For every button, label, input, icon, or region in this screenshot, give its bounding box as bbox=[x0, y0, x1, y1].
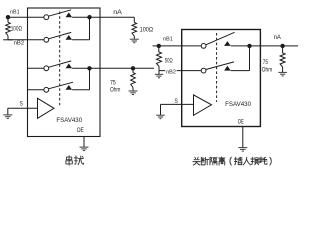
svg-text:S: S bbox=[175, 99, 178, 105]
resistor 50 Ohm at nB1 bbox=[158, 46, 160, 52]
switch S5 lever bbox=[206, 32, 235, 45]
wire nB2 stub to switch 6 bbox=[182, 70, 202, 72]
wire nA stub right bbox=[283, 45, 298, 47]
switch S4 throw contact bbox=[66, 85, 73, 90]
svg-text:FSAV430: FSAV430 bbox=[225, 101, 251, 108]
svg-text:OE: OE bbox=[238, 119, 244, 126]
wire row2 up to row1 junction (right) bbox=[249, 46, 251, 71]
wire nB1 to switch 1 bbox=[8, 16, 44, 18]
resistor 75 Ohm bbox=[132, 68, 134, 72]
svg-text:100Ω: 100Ω bbox=[140, 28, 154, 34]
svg-text:nB1: nB1 bbox=[10, 9, 20, 15]
switch S4 pole bbox=[44, 87, 49, 92]
svg-text:75: 75 bbox=[263, 60, 269, 66]
junction row1/row2 (right) bbox=[247, 44, 251, 48]
wire row4 up to row3 junction bbox=[89, 68, 91, 90]
switch S3 lever bbox=[49, 61, 72, 67]
switch S1 throw contact bbox=[66, 12, 73, 17]
switch S5 throw contact bbox=[224, 41, 231, 46]
svg-text:FSAV430: FSAV430 bbox=[56, 117, 82, 124]
ground below OE bbox=[80, 146, 89, 148]
wire row2 up to row1 junction bbox=[89, 17, 91, 40]
buffer/driver U2 bbox=[194, 95, 212, 115]
node nB1 bbox=[6, 15, 10, 19]
dashed control line U1 bbox=[59, 12, 61, 106]
input S wire bbox=[8, 107, 38, 109]
svg-text:100Ω: 100Ω bbox=[11, 27, 23, 33]
switch S2 pole bbox=[44, 37, 49, 42]
caption: off isolation (insertion loss) bbox=[193, 157, 200, 165]
svg-text:50Ω: 50Ω bbox=[165, 59, 173, 65]
switch S1 lever bbox=[49, 10, 72, 16]
wire switch2 output bbox=[72, 39, 89, 41]
svg-text:OE: OE bbox=[77, 127, 84, 134]
switch S6 lever bbox=[206, 62, 234, 70]
ground below nA resistor bbox=[130, 38, 139, 40]
svg-text:nA: nA bbox=[113, 10, 122, 16]
nB2 terminal bar bbox=[3, 39, 12, 41]
svg-text:Ohm: Ohm bbox=[110, 88, 120, 94]
switch S2 throw contact bbox=[66, 35, 73, 40]
wire stub to switch 4 bbox=[28, 89, 44, 91]
switch S2 lever bbox=[49, 32, 72, 38]
junction 75 Ohm node bbox=[131, 66, 135, 70]
switch S6 throw contact bbox=[224, 66, 231, 71]
svg-text:nB1: nB1 bbox=[163, 37, 173, 43]
switch S1 pole bbox=[44, 15, 49, 20]
wire switch3 output to 75 Ohm node bbox=[72, 67, 154, 69]
wire switch4 output bbox=[72, 89, 89, 91]
ground below 75 Ohm bbox=[129, 90, 138, 92]
wire stub to switch 3 bbox=[28, 67, 44, 69]
switch S4 lever bbox=[49, 82, 74, 89]
resistor 100 Ohm at nA bbox=[132, 23, 137, 37]
wire OE to ground (right) bbox=[242, 127, 244, 148]
ground below OE (right) bbox=[238, 147, 247, 149]
IC U1 FSAV430 body bbox=[28, 8, 101, 137]
junction row1/row2 bbox=[87, 15, 91, 19]
svg-text:75: 75 bbox=[110, 81, 116, 87]
wire nA down bbox=[133, 17, 135, 22]
wire switch1 output to nA corner bbox=[72, 16, 134, 18]
resistor 100 Ohm (nB1-nB2) bbox=[7, 17, 9, 22]
ground at S input bbox=[3, 114, 12, 116]
wire switch5 output to nA bbox=[231, 45, 281, 47]
wire nB2 (right) bbox=[159, 70, 182, 72]
svg-text:S: S bbox=[20, 102, 23, 108]
wire OE to ground bbox=[83, 137, 85, 147]
resistor 75 Ohm (right) bbox=[282, 46, 284, 53]
ground below 50 Ohm bbox=[155, 73, 163, 75]
junction row3/row4 bbox=[87, 66, 91, 70]
svg-text:nA: nA bbox=[274, 35, 281, 41]
ground at S input (right) bbox=[156, 114, 165, 116]
buffer/driver U1 bbox=[38, 98, 55, 118]
switch S3 pole bbox=[44, 66, 49, 71]
svg-text:Ohm: Ohm bbox=[262, 67, 272, 73]
input S wire (right) bbox=[161, 103, 194, 105]
wire nB2 to switch 2 bbox=[8, 39, 44, 41]
caption: crosstalk bbox=[66, 156, 72, 165]
ground below 75 Ohm (right) bbox=[278, 71, 287, 73]
IC U2 FSAV430 body bbox=[182, 30, 261, 127]
switch S3 throw contact bbox=[66, 64, 73, 69]
svg-text:nB2: nB2 bbox=[166, 69, 176, 75]
dashed control line U2 bbox=[216, 33, 218, 102]
svg-text:nB2: nB2 bbox=[14, 40, 25, 46]
switch S6 pole bbox=[201, 68, 206, 73]
wire switch6 output bbox=[231, 70, 250, 72]
switch S5 pole bbox=[201, 44, 206, 49]
node nB1 (right) bbox=[153, 45, 202, 47]
